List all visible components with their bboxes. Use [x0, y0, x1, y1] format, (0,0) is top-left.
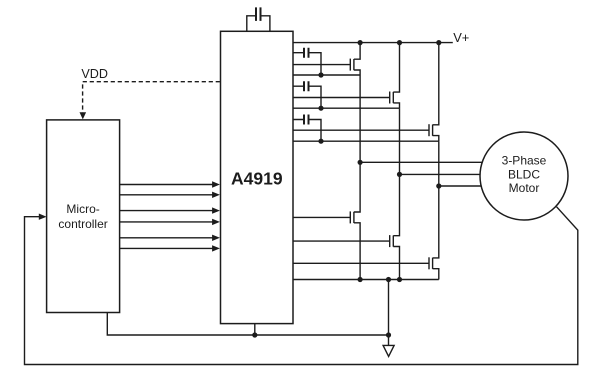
signal arrow 1 head [212, 181, 220, 187]
gate wire GHA [293, 64, 350, 66]
transistor Q2 high-side B [390, 43, 400, 109]
bootstrap capacitor CA [293, 48, 321, 75]
A4919 ground stub wire [254, 324, 256, 335]
signal arrow 4 head [212, 219, 220, 225]
svg-text:BLDC: BLDC [508, 167, 540, 181]
VDD arrowhead [80, 112, 87, 119]
low side source bus wire [293, 279, 439, 281]
junction dot rail B [397, 40, 402, 45]
signal arrow 2 wire [120, 194, 214, 196]
junction dot phase A [358, 160, 363, 165]
svg-text:VDD: VDD [81, 67, 108, 81]
microcontroller box [47, 120, 120, 313]
junction dot cap C [318, 139, 323, 144]
junction dot rail A [358, 40, 363, 45]
V+ rail wire [293, 42, 453, 44]
signal arrow 3 wire [120, 210, 214, 212]
VDD dashed wire [83, 82, 220, 114]
junction dot phase C [436, 183, 441, 188]
source sense wire SA [293, 74, 360, 76]
transistor Q5 low-side B [390, 108, 400, 279]
motor phase wire B [400, 173, 481, 175]
ground bus drop wire [388, 280, 390, 346]
motor phase wire C [439, 185, 482, 187]
ground symbol [383, 345, 394, 356]
transistor Q1 high-side A [350, 43, 360, 75]
bootstrap capacitor CC [293, 115, 321, 142]
gate wire GLC [293, 262, 429, 264]
gate wire GHC [293, 129, 429, 131]
feedback wire from motor [25, 207, 578, 365]
signal arrow 3 head [212, 207, 220, 213]
feedback arrowhead [39, 214, 47, 220]
junction dot bus gnd [386, 277, 391, 282]
junction dot rail C [436, 40, 441, 45]
junction dot bus B [397, 277, 402, 282]
junction dot bus A [358, 277, 363, 282]
decoupling capacitor C1 [247, 7, 270, 31]
signal arrow 4 wire [120, 221, 214, 223]
junction dot phase B [397, 172, 402, 177]
gate wire GHB [293, 97, 390, 99]
signal arrow 5 wire [120, 237, 214, 239]
motor phase wire A [360, 161, 482, 163]
transistor Q3 high-side C [429, 43, 439, 142]
signal arrow 6 wire [120, 247, 214, 249]
motor M1 circle [480, 132, 568, 220]
svg-text:Micro-: Micro- [66, 202, 99, 216]
transistor Q4 low-side A [350, 75, 360, 280]
svg-text:A4919: A4919 [231, 169, 283, 189]
svg-text:V+: V+ [453, 30, 469, 45]
junction dot gnd line right [386, 332, 391, 337]
A4919 U1 box [221, 31, 294, 323]
svg-text:controller: controller [58, 217, 107, 231]
signal arrow 1 wire [120, 184, 214, 186]
junction dot gnd line left [252, 332, 257, 337]
signal arrow 5 head [212, 235, 220, 241]
gate wire GLB [293, 240, 390, 242]
source sense wire SB [293, 107, 400, 109]
junction dot cap B [318, 106, 323, 111]
svg-text:3-Phase: 3-Phase [502, 154, 547, 168]
microcontroller ground wire [107, 313, 388, 336]
source sense wire SC [293, 140, 439, 142]
junction dot cap A [318, 72, 323, 77]
gate wire GLA [293, 216, 350, 218]
signal arrow 6 head [212, 245, 220, 251]
signal arrow 2 head [212, 192, 220, 198]
transistor Q6 low-side C [429, 141, 439, 279]
svg-text:Motor: Motor [509, 181, 540, 195]
bootstrap capacitor CB [293, 81, 321, 108]
